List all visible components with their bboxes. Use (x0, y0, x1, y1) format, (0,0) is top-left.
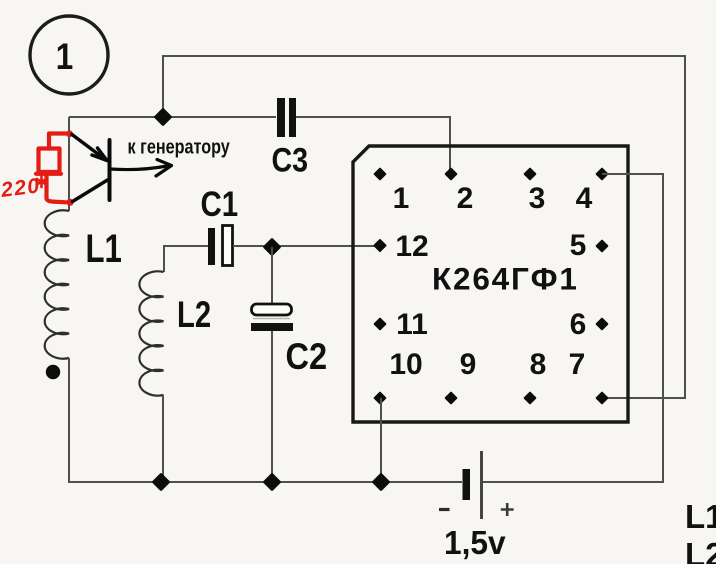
pin 8 dot (525, 393, 536, 404)
svg-text:4: 4 (576, 182, 593, 215)
capacitor C3 (277, 98, 296, 137)
wire L2 top: corner to C1 (164, 246, 208, 272)
pin 10 dot (375, 393, 386, 404)
label C3 (272, 140, 309, 179)
output arrow to generator (110, 166, 167, 170)
battery minus sign (439, 508, 450, 511)
junction at (381,482) (374, 475, 388, 489)
wire C2 bottom down to bottom rail (271, 331, 273, 482)
pin 6 dot (597, 319, 608, 330)
svg-text:6: 6 (570, 308, 587, 341)
label C1 (201, 183, 239, 223)
wire left branch: vertical x=69 from mid rail down to L1 top (68, 117, 70, 211)
wire L2 bottom down to bottom rail (162, 395, 164, 482)
label L1 (86, 226, 122, 270)
label к генератору (128, 135, 231, 158)
inductor L2 (139, 271, 163, 395)
svg-text:3: 3 (529, 182, 546, 215)
transistor bar (108, 140, 112, 200)
pin 5 dot (597, 241, 608, 252)
transistor (hand-drawn annotation) (72, 135, 172, 202)
resistor 220* (hand-drawn, red) (36, 134, 66, 203)
svg-text:К264ГФ1: К264ГФ1 (432, 261, 579, 297)
pin 9 dot (446, 393, 457, 404)
op-amp/IC U1 K264GF1 box (353, 146, 628, 422)
wire junction down to C2 (271, 247, 273, 304)
pin 1 dot (375, 169, 386, 180)
svg-text:1: 1 (56, 37, 73, 78)
capacitor C1 (208, 226, 233, 266)
label L2 (177, 295, 211, 336)
svg-text:1,5v: 1,5v (444, 524, 506, 561)
svg-text:к генератору: к генератору (128, 135, 231, 158)
svg-text:C2: C2 (286, 336, 328, 377)
label 1,5v (444, 524, 506, 561)
pin 3 dot (525, 169, 536, 180)
collector stroke with arrowhead into bar (72, 135, 104, 159)
wire battery plus to pin 4 riser (483, 174, 663, 482)
capacitor C2 (251, 304, 293, 331)
svg-text:9: 9 (460, 348, 477, 381)
red node dot (top, base of transistor drawing) (66, 130, 73, 137)
wire mid rail: from (69,117) right to C3, from C3 right to x=450 then down to pin 2 (69, 117, 451, 174)
wire L1 bottom to bottom-left corner (69, 358, 161, 482)
red node dot (bottom) (66, 199, 73, 206)
svg-text:C3: C3 (272, 140, 309, 179)
svg-text:11: 11 (396, 308, 428, 341)
svg-text:10: 10 (389, 348, 422, 381)
svg-text:5: 5 (570, 229, 587, 262)
svg-text:C1: C1 (201, 183, 239, 223)
wire C1 right plate to pin 12 (233, 245, 380, 247)
pin 2 dot (446, 169, 457, 180)
pin 7 dot (597, 393, 608, 404)
svg-text:L2: L2 (177, 295, 211, 336)
junction at (272,247) (265, 240, 279, 254)
svg-text:2: 2 (457, 182, 474, 215)
node 1 (circled schematic number) (30, 16, 108, 94)
junction at (163,117) (156, 110, 170, 124)
battery 1.5v (463, 451, 484, 519)
junction at (161,482) (154, 475, 168, 489)
label C2 (286, 336, 328, 377)
label 220* (red handwritten) (0, 174, 46, 202)
wire top net: top rail from junction (163,117) up and right to x=685, down to pin 7 (163, 56, 685, 398)
svg-text:L2: L2 (685, 536, 716, 564)
wire bottom rail: from bottom-left corner to battery minus plate (161, 481, 462, 483)
junction at (272,482) (265, 475, 279, 489)
tap dot near L1 bottom (46, 365, 60, 379)
svg-text:L1: L1 (86, 226, 122, 270)
battery plus sign (501, 503, 514, 516)
wire pin 10 down to bottom rail (380, 398, 382, 482)
svg-text:L1: L1 (685, 498, 716, 535)
svg-text:8: 8 (530, 348, 547, 381)
pin 11 dot (375, 319, 386, 330)
svg-text:7: 7 (569, 348, 586, 381)
svg-text:12: 12 (395, 230, 428, 263)
inductor L1 (45, 210, 69, 358)
emitter stroke (73, 180, 108, 202)
svg-text:1: 1 (393, 182, 410, 215)
pin 4 dot (597, 169, 608, 180)
pin 12 dot (375, 240, 386, 251)
